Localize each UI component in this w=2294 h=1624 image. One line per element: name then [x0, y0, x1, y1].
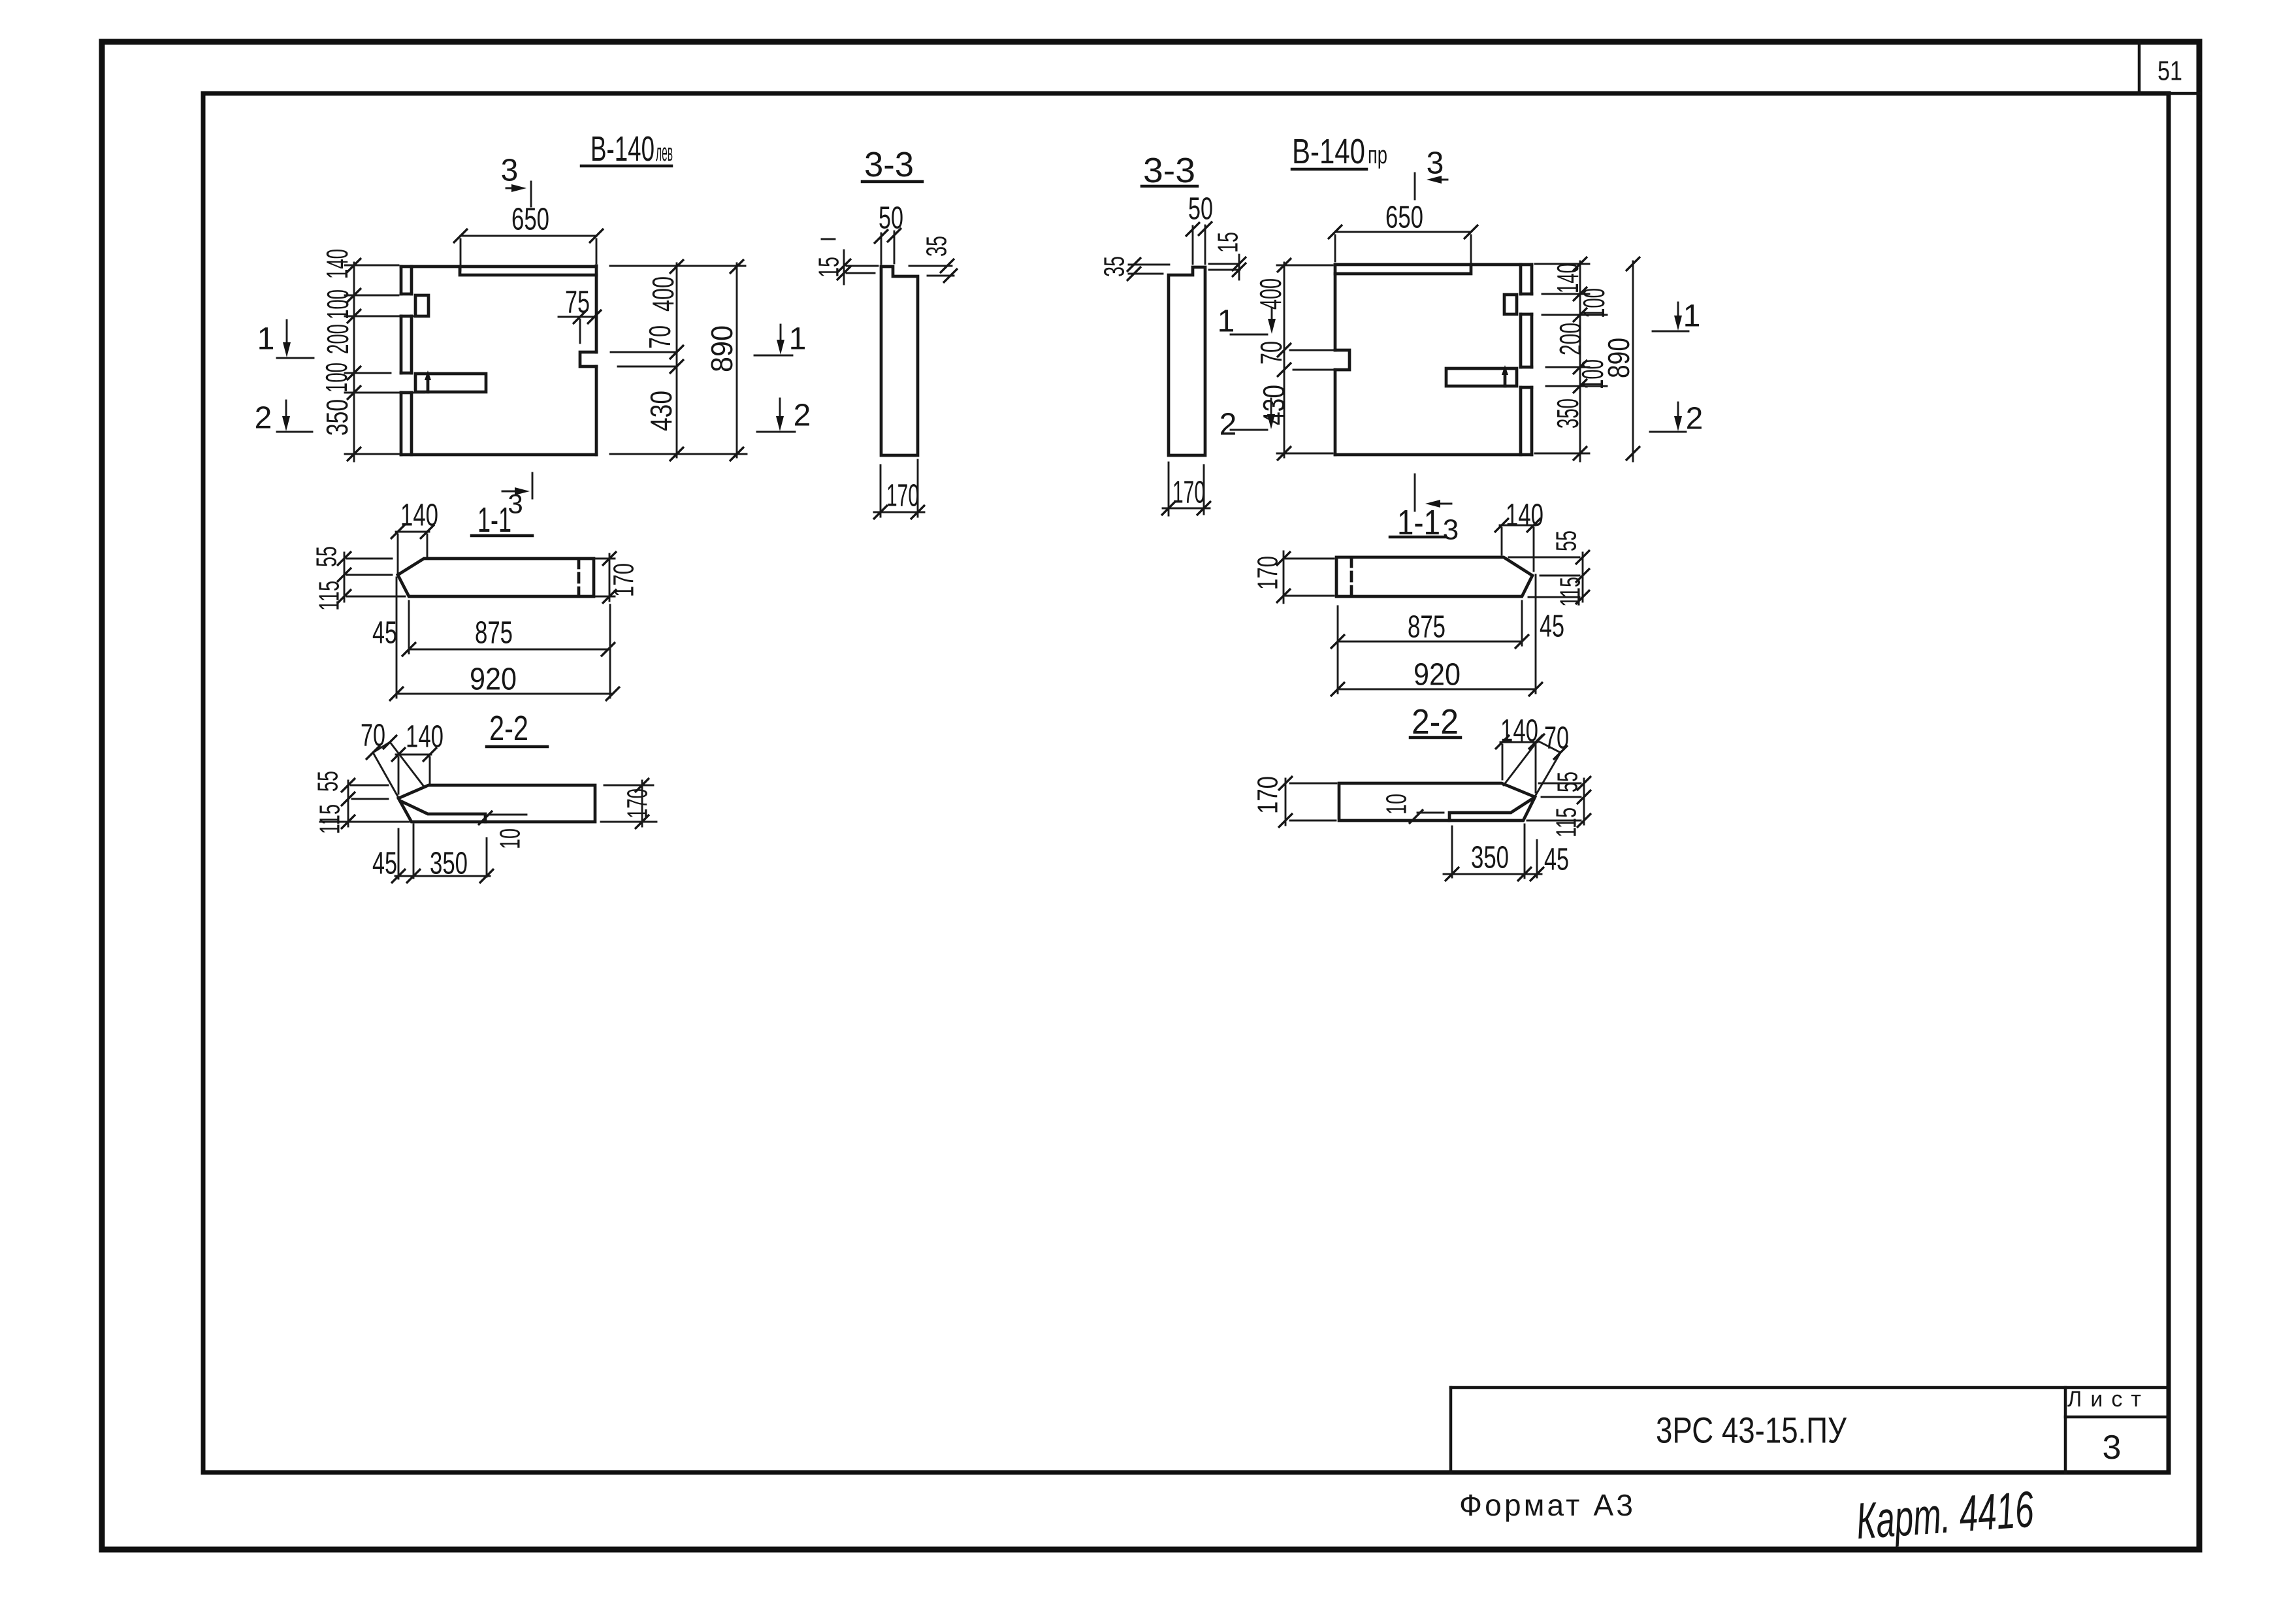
- panel B-140lev top edge: [401, 265, 596, 268]
- svg-text:3: 3: [2103, 1429, 2122, 1467]
- svg-text:115: 115: [314, 581, 346, 611]
- 875/920 extension lines: [396, 577, 610, 698]
- svg-text:430: 430: [1257, 385, 1291, 425]
- svg-text:140: 140: [1500, 714, 1538, 749]
- svg-text:51: 51: [2157, 56, 2182, 86]
- svg-text:170: 170: [622, 788, 654, 819]
- panel key 1: [415, 295, 428, 316]
- svg-text:3: 3: [501, 154, 519, 188]
- right dim line 400/70/430: [676, 263, 678, 457]
- 1-1 bar outline: [1336, 557, 1532, 596]
- svg-text:В-140: В-140: [1292, 132, 1365, 171]
- 2-2 bar outline: [1339, 783, 1535, 820]
- section mark 3 bottom: [1414, 474, 1416, 511]
- panel left edge upper: [1334, 265, 1337, 350]
- svg-text:920: 920: [470, 662, 517, 697]
- 2-2 key inner lines: [1449, 798, 1533, 820]
- svg-text:115: 115: [1551, 807, 1583, 837]
- svg-text:1: 1: [257, 322, 275, 357]
- svg-text:55: 55: [312, 771, 344, 792]
- 3-3 profile: [881, 267, 918, 455]
- svg-text:55: 55: [1552, 771, 1584, 792]
- svg-text:875: 875: [1408, 610, 1446, 645]
- svg-text:3-3: 3-3: [864, 145, 914, 184]
- svg-text:35: 35: [921, 236, 953, 257]
- svg-text:3-3: 3-3: [1143, 151, 1195, 190]
- svg-text:1: 1: [789, 322, 807, 357]
- title underline: [581, 165, 671, 168]
- svg-text:70: 70: [643, 325, 677, 349]
- 2-2 underline: [1410, 736, 1461, 739]
- title block left line: [1449, 1388, 1453, 1472]
- svg-text:875: 875: [475, 616, 513, 651]
- svg-text:200: 200: [1553, 323, 1587, 355]
- svg-text:45: 45: [372, 847, 397, 881]
- left dim line 400/70/430: [1284, 263, 1285, 457]
- svg-text:В-140: В-140: [590, 129, 654, 169]
- 2-2 key inner lines: [400, 801, 485, 822]
- title block top line: [1451, 1386, 2169, 1389]
- svg-text:350: 350: [1551, 398, 1585, 429]
- svg-text:920: 920: [1414, 658, 1461, 692]
- 1-1 dashed key line: [1350, 558, 1353, 596]
- svg-text:430: 430: [644, 391, 678, 431]
- svg-text:35: 35: [1099, 256, 1131, 277]
- svg-text:лев: лев: [656, 139, 673, 167]
- svg-text:55: 55: [311, 546, 343, 567]
- svg-text:2: 2: [1220, 408, 1237, 442]
- svg-text:45: 45: [372, 616, 397, 651]
- svg-text:170: 170: [886, 479, 919, 513]
- 1-1 underline: [1390, 536, 1446, 539]
- svg-text:350: 350: [1471, 841, 1509, 875]
- left dims extension lines: [1277, 265, 1336, 453]
- svg-text:10: 10: [494, 828, 526, 849]
- panel left edge notch: [1335, 350, 1349, 370]
- stack extension lines: [345, 265, 425, 454]
- svg-text:140: 140: [320, 249, 354, 279]
- svg-text:170: 170: [1252, 776, 1284, 814]
- left dimension stack line: [353, 263, 355, 461]
- overall dim line 890: [1632, 261, 1634, 461]
- svg-text:890: 890: [1602, 338, 1636, 378]
- svg-text:75: 75: [565, 285, 590, 320]
- svg-text:400: 400: [646, 276, 680, 312]
- right dim line 55/115: [1583, 779, 1585, 824]
- svg-text:1-1: 1-1: [477, 500, 511, 540]
- title block list divider: [2065, 1416, 2169, 1419]
- svg-text:1: 1: [1683, 299, 1701, 334]
- right dim line 55/115: [1582, 553, 1584, 602]
- panel right edge caps: [1521, 294, 1532, 387]
- title underline: [1292, 168, 1366, 171]
- svg-text:Лист: Лист: [2067, 1387, 2150, 1412]
- panel right edge lower: [595, 366, 598, 455]
- 2-2 bar outline: [398, 785, 595, 822]
- svg-text:15: 15: [813, 257, 845, 278]
- right overall dim line 890: [736, 263, 738, 457]
- panel left edge lower: [1334, 370, 1337, 455]
- svg-text:115: 115: [314, 804, 346, 834]
- panel key 2 bar: [415, 374, 486, 392]
- panel bottom edge: [401, 453, 596, 457]
- svg-text:50: 50: [1188, 192, 1213, 227]
- panel key 2 bar: [1446, 368, 1517, 386]
- 3-3 underline: [862, 180, 922, 184]
- panel right outer edge segments: [1530, 265, 1534, 455]
- svg-text:140: 140: [406, 720, 444, 755]
- svg-text:350: 350: [320, 399, 354, 436]
- svg-text:2: 2: [794, 398, 811, 433]
- right extension lines: [1535, 264, 1607, 453]
- 3-3 profile: [1169, 267, 1205, 455]
- svg-text:10: 10: [1381, 794, 1413, 815]
- dim 170 bottom: [880, 460, 918, 517]
- panel top shelf step: [460, 267, 596, 275]
- 875/920 extension lines: [1338, 575, 1536, 693]
- 1-1 dashed key line: [577, 559, 581, 596]
- svg-text:400: 400: [1253, 278, 1287, 310]
- svg-text:45: 45: [1544, 843, 1569, 877]
- title block: [1451, 1387, 2169, 1472]
- key 2 divider with arrow: [427, 378, 430, 392]
- left dim line 55/115: [344, 553, 346, 602]
- svg-text:3РС 43-15.ПУ: 3РС 43-15.ПУ: [1656, 1410, 1847, 1451]
- panel left edge caps: [401, 294, 412, 393]
- svg-text:140: 140: [1506, 498, 1543, 533]
- svg-text:2-2: 2-2: [489, 709, 528, 748]
- 1-1 underline: [472, 534, 532, 538]
- panel right inner edge segments: [1519, 265, 1523, 455]
- left dim line 55/115: [347, 781, 349, 826]
- svg-text:100: 100: [319, 363, 353, 393]
- page number box 51: [2138, 42, 2141, 93]
- dim 170 bottom: [1169, 463, 1204, 515]
- svg-text:170: 170: [1172, 476, 1205, 510]
- svg-text:650: 650: [1385, 201, 1423, 235]
- panel B-140pr top edge: [1335, 263, 1532, 267]
- right extension lines: [610, 266, 747, 454]
- panel right edge notch: [580, 352, 596, 366]
- svg-text:70: 70: [1254, 341, 1288, 365]
- panel right edge upper: [595, 266, 598, 352]
- 1-1 bar outline: [398, 559, 594, 596]
- svg-text:115: 115: [1555, 577, 1587, 607]
- svg-text:2: 2: [1686, 402, 1704, 436]
- panel left outer edge segments: [400, 267, 403, 455]
- svg-text:пр: пр: [1368, 142, 1387, 169]
- right dimension stack line: [1579, 261, 1581, 461]
- svg-text:100: 100: [1577, 288, 1611, 318]
- svg-text:45: 45: [1540, 609, 1564, 644]
- inner drawing frame: [203, 93, 2169, 1472]
- panel left inner edge segments: [410, 267, 413, 455]
- 2-2 underline: [487, 745, 547, 749]
- svg-text:200: 200: [321, 324, 355, 354]
- panel top shelf step: [1335, 265, 1471, 274]
- svg-text:170: 170: [1252, 556, 1284, 590]
- svg-text:2-2: 2-2: [1412, 702, 1459, 741]
- key 2 divider with arrow: [1504, 372, 1507, 386]
- svg-text:15: 15: [1212, 232, 1244, 253]
- section mark 3 bottom: [532, 473, 534, 498]
- panel bottom edge: [1335, 453, 1532, 457]
- svg-text:2: 2: [255, 401, 272, 436]
- svg-text:890: 890: [705, 325, 739, 372]
- svg-text:55: 55: [1551, 530, 1583, 551]
- title block divider: [2064, 1388, 2067, 1472]
- panel key 1: [1504, 295, 1517, 314]
- svg-text:3: 3: [1427, 146, 1444, 181]
- 3-3 underline: [1142, 185, 1197, 188]
- svg-text:100: 100: [321, 289, 355, 319]
- svg-text:3: 3: [1443, 514, 1459, 546]
